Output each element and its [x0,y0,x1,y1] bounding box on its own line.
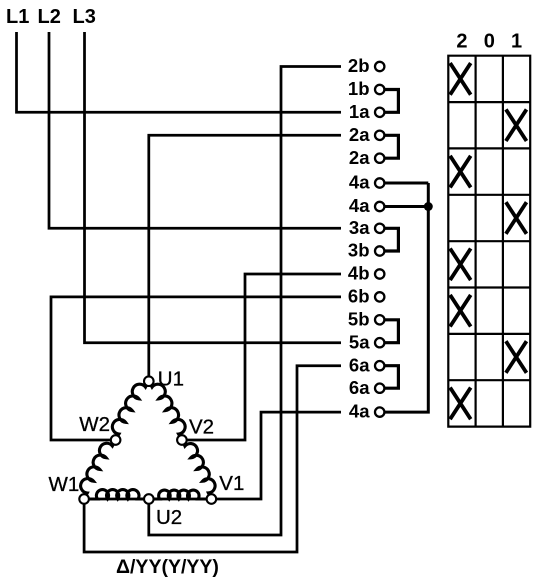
terminal 3b [375,246,384,255]
svg-text:Δ/YY(Y/YY): Δ/YY(Y/YY) [116,556,219,578]
wire terminal 4a (row 7) to right bus [385,205,429,208]
wire L2 to terminal 3a [49,32,341,228]
winding coil W2-W1 [81,443,113,494]
jumper 3a-3b [384,228,398,251]
winding coil U2-V1 [154,490,206,499]
X mark row8 col2 [450,388,471,420]
jumper 1b-1a [384,90,398,113]
terminal 6a (row 14) [375,361,384,370]
svg-text:4a: 4a [349,172,370,193]
svg-text:L2: L2 [38,6,61,28]
terminal 4a (row 7) [375,202,384,211]
svg-text:W1: W1 [49,473,80,496]
svg-text:6b: 6b [348,286,370,307]
wire terminal 2b to winding tap U2 [149,67,341,536]
svg-text:3b: 3b [348,240,370,261]
terminal 4a (row 16) [375,407,384,416]
svg-text:5b: 5b [348,308,370,329]
winding base line W1-V1 [89,498,207,501]
terminal 6a (row 15) [375,384,384,393]
svg-text:2: 2 [456,31,467,53]
node W1 [79,494,89,504]
node V1 [207,494,217,504]
svg-text:0: 0 [484,31,495,53]
svg-text:U1: U1 [158,368,184,391]
terminal 3a [375,224,384,233]
terminal 2a [375,131,384,140]
terminal 6b [375,292,384,301]
junction dot on 4a bus [424,202,433,211]
winding coil U1-V2 [151,384,185,435]
X mark row6 col2 [450,295,471,327]
jumper 6a-6a [384,366,398,389]
svg-text:4a: 4a [349,401,370,422]
svg-text:5a: 5a [349,331,370,352]
wire terminal 6a to winding tap W1 [84,366,341,552]
terminal 4b [375,269,384,278]
winding coil V2-V1 [184,444,215,495]
jumper 5b-5a [384,320,398,343]
svg-text:U2: U2 [156,506,182,529]
svg-text:4b: 4b [348,263,370,284]
wire terminal 4b to winding tap V2 [186,274,341,440]
jumper 2a-2a [384,135,398,158]
svg-text:2a: 2a [349,147,370,168]
svg-text:V2: V2 [189,415,214,438]
svg-text:3a: 3a [349,217,370,238]
svg-text:V1: V1 [219,472,244,495]
node U2 [144,494,154,504]
X mark row7 col1 [506,341,527,373]
node U1 [144,376,154,386]
svg-text:W2: W2 [79,413,110,436]
wire L1 to terminal 1a [17,32,342,112]
wire right bus joining 4a terminals [385,183,429,412]
svg-text:4a: 4a [349,195,370,216]
svg-text:L1: L1 [6,6,29,28]
X mark row5 col2 [450,249,471,281]
wire terminal 4a (row 6) to right bus [385,182,429,185]
terminal 1a [375,108,384,117]
switch table grid [448,56,530,427]
terminal 5a [375,338,384,347]
svg-text:L3: L3 [73,6,96,28]
X mark row3 col2 [450,156,471,188]
X mark row1 col2 [450,63,471,95]
svg-text:2b: 2b [348,55,370,76]
terminal 4a (row 6) [375,178,384,187]
winding coil U1-W2 [112,384,146,435]
svg-text:1: 1 [511,31,522,53]
terminal 5b [375,315,384,324]
winding coil W1-U2 [89,490,143,499]
wire terminal 6b to winding tap W2 [51,297,341,440]
wire terminal 4a (bottom) to winding tap V1 [216,412,341,499]
X mark row4 col1 [506,202,527,234]
svg-text:6a: 6a [349,354,370,375]
svg-text:6a: 6a [349,377,370,398]
node W2 [111,435,121,445]
terminal 1b [375,85,384,94]
wire L3 to terminal 5a [85,32,342,343]
wire terminal 2a to winding tap U1 [149,135,341,377]
terminal 2a (second) [375,154,384,163]
terminal 2b [375,62,384,71]
X mark row2 col1 [506,109,527,141]
svg-text:1a: 1a [349,101,370,122]
node V2 [177,435,187,445]
svg-text:2a: 2a [349,124,370,145]
svg-text:1b: 1b [348,78,370,99]
